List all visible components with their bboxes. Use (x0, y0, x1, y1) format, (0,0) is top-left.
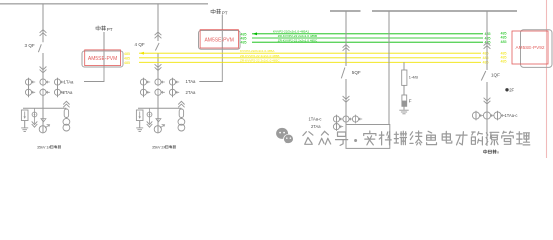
wire PT2 label drop (221, 15, 223, 48)
watermark text (303, 132, 313, 145)
CT 1TAa row feeder1 (25, 79, 31, 85)
fuse PT1a (34, 108, 36, 123)
svg-text:2TAa: 2TAa (63, 90, 74, 95)
arrester F bus (402, 95, 407, 106)
svg-text:KVVP2-22/2x2x1.0-485A: KVVP2-22/2x2x1.0-485A (240, 49, 275, 53)
CT 1TAa-c row xfmr (472, 112, 479, 119)
wire main xfmr drop (486, 11, 488, 70)
label main transformer (483, 150, 487, 154)
svg-text:5QF: 5QF (352, 70, 361, 75)
wire PT1 label drop (103, 32, 105, 66)
svg-text:485: 485 (501, 40, 507, 44)
wire CT stubs xfmr (475, 111, 477, 120)
CT 2TAb row feeder2 (140, 89, 146, 95)
svg-text:KVVP2-22/2x2x1.0-485A1: KVVP2-22/2x2x1.0-485A1 (273, 29, 309, 33)
svg-text:1-4/B: 1-4/B (409, 75, 419, 80)
wire arrester to ground (403, 106, 405, 110)
PT feeder1 main (39, 126, 46, 133)
svg-text:1TAa-c: 1TAa-c (505, 113, 518, 118)
svg-text:ZR-KVVP2-22 2x2x1.0 485C: ZR-KVVP2-22 2x2x1.0 485C (240, 58, 280, 62)
cable head PT2b up (178, 101, 184, 107)
wire feeder1 lower (42, 96, 44, 133)
wire feeder2 lower (157, 96, 159, 133)
breaker 4QF (155, 43, 159, 51)
svg-text:PT: PT (107, 27, 113, 32)
svg-text:PT: PT (222, 10, 228, 15)
svg-text:35kV 1#: 35kV 1# (37, 146, 51, 150)
svg-text:F: F (409, 99, 412, 104)
cable head feeder1 up (40, 30, 47, 36)
wire RS485 green line 1 (252, 33, 483, 35)
svg-text:2TAa: 2TAa (311, 124, 321, 129)
svg-text:ZR-KVVP2-22 2x2x1.0 485C: ZR-KVVP2-22 2x2x1.0 485C (278, 38, 318, 42)
wire RS485 green line 3 (252, 41, 483, 43)
cable head xfmr down (484, 98, 491, 104)
label PT1 name (96, 26, 100, 31)
earthing tee feeder1 (41, 119, 46, 122)
svg-text:AM5SE-PVM: AM5SE-PVM (204, 37, 233, 43)
wire RS485 yellow line 2 (139, 57, 481, 59)
wire SVG branch drop (345, 11, 347, 66)
wire PT branch drop (388, 11, 390, 125)
svg-text:485: 485 (483, 61, 489, 65)
wire PT fuse stub (403, 62, 405, 70)
cable head PT1a down (32, 121, 38, 127)
wire RS485 yellow line 1 (139, 52, 481, 54)
relay U2 shadow (199, 31, 241, 50)
wire fuse to arrester (403, 85, 405, 95)
earthing tee feeder2 (156, 119, 161, 122)
cable head feeder2 up (155, 32, 162, 38)
svg-text:485: 485 (124, 52, 130, 56)
svg-text:485: 485 (501, 60, 507, 64)
CT 1TAb row feeder2 (140, 79, 146, 85)
fuse PT2a (149, 108, 151, 123)
wire red boundary line (546, 0, 548, 158)
arrester F2 box (136, 110, 143, 121)
svg-text:ZR-KVVP2-22 2x2x1.0 485B: ZR-KVVP2-22 2x2x1.0 485B (240, 54, 279, 58)
label PT2 name (211, 9, 215, 14)
node bus section bar 2 (372, 10, 517, 12)
fuse PT2b (179, 109, 183, 118)
svg-text:485: 485 (483, 56, 489, 60)
wire arrester F1 stem (24, 121, 26, 128)
fuse PT1b (64, 109, 68, 118)
cable head PT2a down (147, 121, 153, 127)
svg-text:AM5SE-PVM: AM5SE-PVM (88, 56, 117, 62)
wire feeder2 drop (157, 4, 159, 41)
svg-text:AM5SE-PV92: AM5SE-PV92 (516, 45, 545, 50)
svg-text:n: n (497, 151, 499, 155)
watermark wechat icon (276, 128, 293, 144)
cable head SVG down (343, 96, 350, 102)
wire RS485 yellow line 3 (139, 61, 481, 63)
cable head feeder1 down (40, 67, 47, 73)
cable head PT1b up (63, 101, 69, 107)
svg-text:3 QF: 3 QF (25, 43, 35, 48)
relay U3 shadow (521, 30, 553, 68)
svg-text:1TAa: 1TAa (64, 80, 75, 85)
svg-text:35kV 2#: 35kV 2# (152, 146, 166, 150)
PT feeder1 b (63, 118, 70, 125)
svg-text:1TAa: 1TAa (186, 79, 197, 84)
fuse FU bus PT (402, 70, 407, 85)
relay U1 shadow (82, 51, 123, 67)
wire feeder2 aux bus (138, 107, 181, 109)
wire relay U2 to CT (199, 48, 222, 82)
breaker 5QF (341, 68, 345, 79)
svg-text:1TAa-c: 1TAa-c (309, 116, 322, 121)
wire CT stub SVG (336, 115, 338, 131)
relay U2 AM5SE-PVM (200, 30, 238, 48)
wire CT stubs feeder1 (28, 78, 30, 97)
arrester F1 box (21, 110, 28, 121)
wire feeder1 aux bus (23, 107, 66, 109)
SVG enclosure box (346, 125, 390, 149)
wire feeder1 drop (42, 4, 44, 43)
wire RS485 green line 2 (252, 37, 483, 39)
relay U3 AM5SE-PV92 (512, 31, 548, 64)
cable head feeder2 down (155, 64, 162, 70)
svg-text:1QF: 1QF (491, 73, 500, 78)
breaker 3QF (38, 44, 41, 52)
svg-text:2F: 2F (509, 88, 514, 93)
ground bus PT (399, 109, 408, 111)
svg-text:485: 485 (241, 41, 247, 45)
wire relay U1 to CT (84, 66, 104, 82)
relay U1 AM5SE-PVM (85, 50, 121, 66)
svg-text:485: 485 (124, 61, 130, 65)
svg-text:485: 485 (483, 52, 489, 56)
cable head SVG up (343, 45, 350, 51)
breaker 1QF (481, 71, 486, 81)
PT feeder2 main (154, 126, 161, 133)
ground feeder2 (136, 127, 143, 129)
CT 2TAa row feeder1 (25, 89, 31, 95)
svg-text:4 QF: 4 QF (135, 42, 145, 47)
node bus section bar 1 (330, 10, 361, 12)
CT 1TAa-c row SVG (333, 116, 339, 122)
svg-text:2TAa: 2TAa (186, 90, 197, 95)
CT 2TAa SVG (333, 124, 339, 130)
svg-text:485: 485 (124, 57, 130, 61)
wire main 35kV bus (0, 3, 208, 5)
ground feeder1 (21, 127, 28, 129)
cable head xfmr up (484, 43, 491, 49)
wire arrester F2 stem (139, 121, 141, 128)
wire CT stubs feeder2 (143, 78, 145, 97)
label B2F (505, 88, 508, 91)
PT feeder2 b (178, 118, 185, 125)
